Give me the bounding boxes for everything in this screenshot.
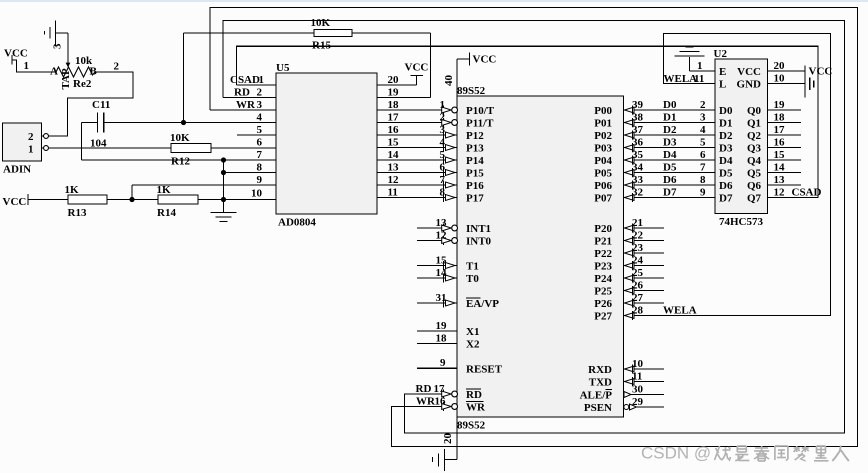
svg-text:21: 21 bbox=[632, 217, 643, 229]
svg-text:Q0: Q0 bbox=[747, 105, 762, 117]
svg-text:INT0: INT0 bbox=[466, 236, 492, 248]
svg-text:D3: D3 bbox=[719, 143, 733, 155]
svg-text:1K: 1K bbox=[157, 184, 172, 196]
svg-text:17: 17 bbox=[388, 111, 400, 123]
svg-text:29: 29 bbox=[632, 396, 644, 408]
svg-text:39: 39 bbox=[632, 99, 644, 111]
svg-text:P04: P04 bbox=[594, 155, 612, 167]
svg-text:P16: P16 bbox=[466, 180, 484, 192]
svg-text:11: 11 bbox=[388, 186, 398, 198]
svg-text:19: 19 bbox=[436, 320, 448, 332]
svg-text:7: 7 bbox=[700, 161, 706, 173]
svg-text:16: 16 bbox=[435, 395, 447, 407]
svg-text:37: 37 bbox=[632, 124, 644, 136]
svg-text:VCC: VCC bbox=[737, 66, 761, 78]
svg-text:14: 14 bbox=[774, 161, 786, 173]
svg-text:A: A bbox=[50, 66, 58, 78]
svg-text:1: 1 bbox=[697, 60, 703, 72]
svg-text:Q4: Q4 bbox=[747, 155, 762, 167]
svg-text:Q1: Q1 bbox=[747, 118, 761, 130]
svg-text:P11/T: P11/T bbox=[466, 118, 494, 130]
svg-text:7: 7 bbox=[440, 174, 446, 186]
svg-text:12: 12 bbox=[774, 186, 786, 198]
svg-text:Q7: Q7 bbox=[747, 193, 762, 205]
svg-text:RD: RD bbox=[416, 383, 432, 395]
svg-text:2: 2 bbox=[700, 99, 706, 111]
svg-text:P12: P12 bbox=[466, 130, 484, 142]
svg-text:19: 19 bbox=[388, 86, 400, 98]
svg-text:VCC: VCC bbox=[4, 48, 28, 60]
svg-text:Q6: Q6 bbox=[747, 180, 762, 192]
svg-text:8: 8 bbox=[440, 186, 446, 198]
svg-text:3: 3 bbox=[257, 99, 263, 111]
svg-text:14: 14 bbox=[388, 149, 400, 161]
svg-text:19: 19 bbox=[774, 99, 786, 111]
svg-text:25: 25 bbox=[632, 267, 644, 279]
svg-text:2: 2 bbox=[114, 61, 120, 73]
svg-text:3: 3 bbox=[700, 111, 706, 123]
svg-text:5: 5 bbox=[440, 149, 446, 161]
svg-text:18: 18 bbox=[436, 332, 448, 344]
svg-text:1: 1 bbox=[440, 99, 446, 111]
svg-text:20: 20 bbox=[774, 60, 786, 72]
svg-text:P23: P23 bbox=[594, 261, 612, 273]
svg-text:CSAD: CSAD bbox=[792, 186, 822, 198]
svg-text:P20: P20 bbox=[594, 223, 612, 235]
svg-text:TXD: TXD bbox=[589, 377, 612, 389]
svg-text:10K: 10K bbox=[170, 132, 190, 144]
svg-text:P07: P07 bbox=[594, 193, 612, 205]
svg-text:CSDN @: CSDN @ bbox=[641, 444, 711, 463]
svg-text:26: 26 bbox=[632, 279, 644, 291]
svg-text:ALE/P: ALE/P bbox=[580, 390, 613, 402]
svg-text:E: E bbox=[719, 66, 726, 78]
svg-text:T1: T1 bbox=[466, 261, 479, 273]
svg-text:P22: P22 bbox=[594, 248, 612, 260]
svg-text:8: 8 bbox=[257, 161, 263, 173]
svg-text:P10/T: P10/T bbox=[466, 105, 495, 117]
svg-text:15: 15 bbox=[388, 136, 400, 148]
svg-text:9: 9 bbox=[440, 357, 446, 369]
svg-text:1: 1 bbox=[24, 60, 30, 72]
svg-text:EA/VP: EA/VP bbox=[466, 298, 499, 310]
svg-text:D1: D1 bbox=[719, 118, 732, 130]
svg-text:D5: D5 bbox=[663, 161, 677, 173]
svg-text:VCC: VCC bbox=[405, 62, 429, 74]
svg-text:D0: D0 bbox=[719, 105, 733, 117]
svg-text:P00: P00 bbox=[594, 105, 612, 117]
svg-text:U2: U2 bbox=[714, 48, 728, 60]
svg-text:10K: 10K bbox=[311, 17, 331, 29]
svg-text:14: 14 bbox=[436, 267, 448, 279]
svg-text:GND: GND bbox=[737, 79, 762, 91]
svg-text:D4: D4 bbox=[663, 149, 677, 161]
svg-text:18: 18 bbox=[774, 111, 786, 123]
svg-text:16: 16 bbox=[388, 124, 400, 136]
svg-text:10: 10 bbox=[774, 73, 786, 85]
svg-text:40: 40 bbox=[443, 75, 455, 87]
svg-text:74HC573: 74HC573 bbox=[719, 216, 764, 228]
svg-text:6: 6 bbox=[257, 136, 263, 148]
svg-text:17: 17 bbox=[434, 383, 446, 395]
svg-text:89S52: 89S52 bbox=[457, 420, 486, 432]
svg-text:Q5: Q5 bbox=[747, 168, 762, 180]
svg-text:2: 2 bbox=[257, 87, 263, 99]
svg-text:33: 33 bbox=[632, 174, 644, 186]
svg-text:ADIN: ADIN bbox=[3, 164, 31, 176]
svg-text:P27: P27 bbox=[594, 311, 612, 323]
svg-text:D2: D2 bbox=[663, 124, 677, 136]
svg-text:24: 24 bbox=[632, 254, 644, 266]
svg-text:28: 28 bbox=[632, 304, 644, 316]
svg-text:8: 8 bbox=[700, 174, 706, 186]
svg-text:D6: D6 bbox=[663, 174, 677, 186]
svg-text:WR: WR bbox=[236, 99, 256, 111]
svg-text:15: 15 bbox=[774, 149, 786, 161]
svg-text:VCC: VCC bbox=[473, 54, 497, 66]
svg-text:5: 5 bbox=[700, 136, 706, 148]
svg-text:13: 13 bbox=[774, 174, 786, 186]
svg-text:D7: D7 bbox=[719, 193, 733, 205]
svg-text:Q2: Q2 bbox=[747, 130, 762, 142]
svg-text:D5: D5 bbox=[719, 168, 733, 180]
svg-text:1: 1 bbox=[28, 144, 34, 156]
svg-text:C11: C11 bbox=[92, 99, 110, 111]
svg-text:10: 10 bbox=[632, 358, 644, 370]
svg-text:4: 4 bbox=[700, 124, 706, 136]
svg-text:5: 5 bbox=[257, 124, 263, 136]
svg-text:18: 18 bbox=[388, 99, 400, 111]
svg-text:15: 15 bbox=[436, 254, 448, 266]
svg-text:R14: R14 bbox=[157, 207, 176, 219]
svg-text:D0: D0 bbox=[663, 99, 677, 111]
svg-text:WELA: WELA bbox=[663, 304, 697, 316]
svg-text:D6: D6 bbox=[719, 180, 733, 192]
svg-text:WELA: WELA bbox=[664, 73, 698, 85]
svg-text:4: 4 bbox=[440, 136, 446, 148]
svg-text:R12: R12 bbox=[171, 156, 190, 168]
svg-text:10: 10 bbox=[251, 188, 263, 200]
svg-text:P15: P15 bbox=[466, 168, 484, 180]
svg-text:3: 3 bbox=[52, 43, 64, 49]
svg-text:RXD: RXD bbox=[588, 364, 612, 376]
svg-text:12: 12 bbox=[388, 174, 400, 186]
svg-text:17: 17 bbox=[774, 124, 786, 136]
svg-text:X1: X1 bbox=[466, 326, 479, 338]
svg-text:P24: P24 bbox=[594, 273, 612, 285]
svg-text:9: 9 bbox=[700, 186, 706, 198]
svg-text:AD0804: AD0804 bbox=[278, 217, 316, 229]
svg-text:20: 20 bbox=[442, 433, 454, 445]
svg-text:32: 32 bbox=[632, 186, 644, 198]
svg-text:9: 9 bbox=[257, 174, 263, 186]
svg-text:P05: P05 bbox=[594, 168, 612, 180]
svg-text:RESET: RESET bbox=[466, 363, 503, 375]
svg-text:22: 22 bbox=[632, 229, 644, 241]
svg-text:T0: T0 bbox=[466, 273, 479, 285]
svg-text:U5: U5 bbox=[276, 62, 290, 74]
svg-text:12: 12 bbox=[436, 229, 448, 241]
svg-text:13: 13 bbox=[388, 161, 400, 173]
svg-text:30: 30 bbox=[632, 383, 644, 395]
svg-text:2: 2 bbox=[440, 111, 446, 123]
svg-text:20: 20 bbox=[388, 74, 400, 86]
svg-text:WR: WR bbox=[416, 396, 436, 408]
svg-text:R15: R15 bbox=[312, 40, 331, 52]
svg-text:P21: P21 bbox=[594, 236, 612, 248]
svg-text:P17: P17 bbox=[466, 193, 484, 205]
svg-text:R13: R13 bbox=[68, 207, 87, 219]
svg-text:36: 36 bbox=[632, 136, 644, 148]
svg-text:P01: P01 bbox=[594, 118, 612, 130]
svg-text:38: 38 bbox=[632, 111, 644, 123]
svg-text:VCC: VCC bbox=[3, 196, 27, 208]
svg-text:X2: X2 bbox=[466, 339, 480, 351]
svg-text:31: 31 bbox=[436, 292, 447, 304]
svg-text:P02: P02 bbox=[594, 130, 612, 142]
svg-text:WR: WR bbox=[466, 402, 486, 414]
svg-text:16: 16 bbox=[774, 136, 786, 148]
svg-text:1: 1 bbox=[259, 74, 265, 86]
svg-text:Re2: Re2 bbox=[73, 78, 92, 90]
svg-text:P26: P26 bbox=[594, 298, 612, 310]
svg-text:7: 7 bbox=[257, 149, 263, 161]
svg-text:P03: P03 bbox=[594, 143, 612, 155]
svg-text:RD: RD bbox=[234, 87, 250, 99]
svg-text:4: 4 bbox=[257, 111, 263, 123]
svg-text:89S52: 89S52 bbox=[457, 85, 486, 97]
svg-text:27: 27 bbox=[632, 292, 644, 304]
svg-text:CSAD: CSAD bbox=[230, 74, 260, 86]
svg-text:35: 35 bbox=[632, 149, 644, 161]
svg-text:D7: D7 bbox=[663, 186, 677, 198]
svg-text:34: 34 bbox=[632, 161, 644, 173]
svg-text:P25: P25 bbox=[594, 286, 612, 298]
svg-text:INT1: INT1 bbox=[466, 223, 491, 235]
svg-text:D2: D2 bbox=[719, 130, 733, 142]
svg-text:D3: D3 bbox=[663, 136, 677, 148]
svg-text:3: 3 bbox=[440, 124, 446, 136]
svg-text:P13: P13 bbox=[466, 143, 484, 155]
svg-text:6: 6 bbox=[440, 161, 446, 173]
svg-text:PSEN: PSEN bbox=[584, 402, 612, 414]
svg-text:2: 2 bbox=[28, 131, 34, 143]
svg-text:D1: D1 bbox=[663, 111, 676, 123]
svg-text:1K: 1K bbox=[65, 184, 80, 196]
svg-text:Q3: Q3 bbox=[747, 143, 762, 155]
svg-text:P06: P06 bbox=[594, 180, 612, 192]
svg-text:RD: RD bbox=[466, 389, 482, 401]
svg-text:13: 13 bbox=[436, 217, 448, 229]
svg-text:11: 11 bbox=[632, 370, 642, 382]
svg-text:P14: P14 bbox=[466, 155, 484, 167]
svg-text:VCC: VCC bbox=[809, 66, 833, 78]
svg-text:23: 23 bbox=[632, 242, 644, 254]
svg-text:L: L bbox=[719, 79, 726, 91]
svg-text:D4: D4 bbox=[719, 155, 733, 167]
svg-text:11: 11 bbox=[694, 73, 704, 85]
svg-text:6: 6 bbox=[700, 149, 706, 161]
